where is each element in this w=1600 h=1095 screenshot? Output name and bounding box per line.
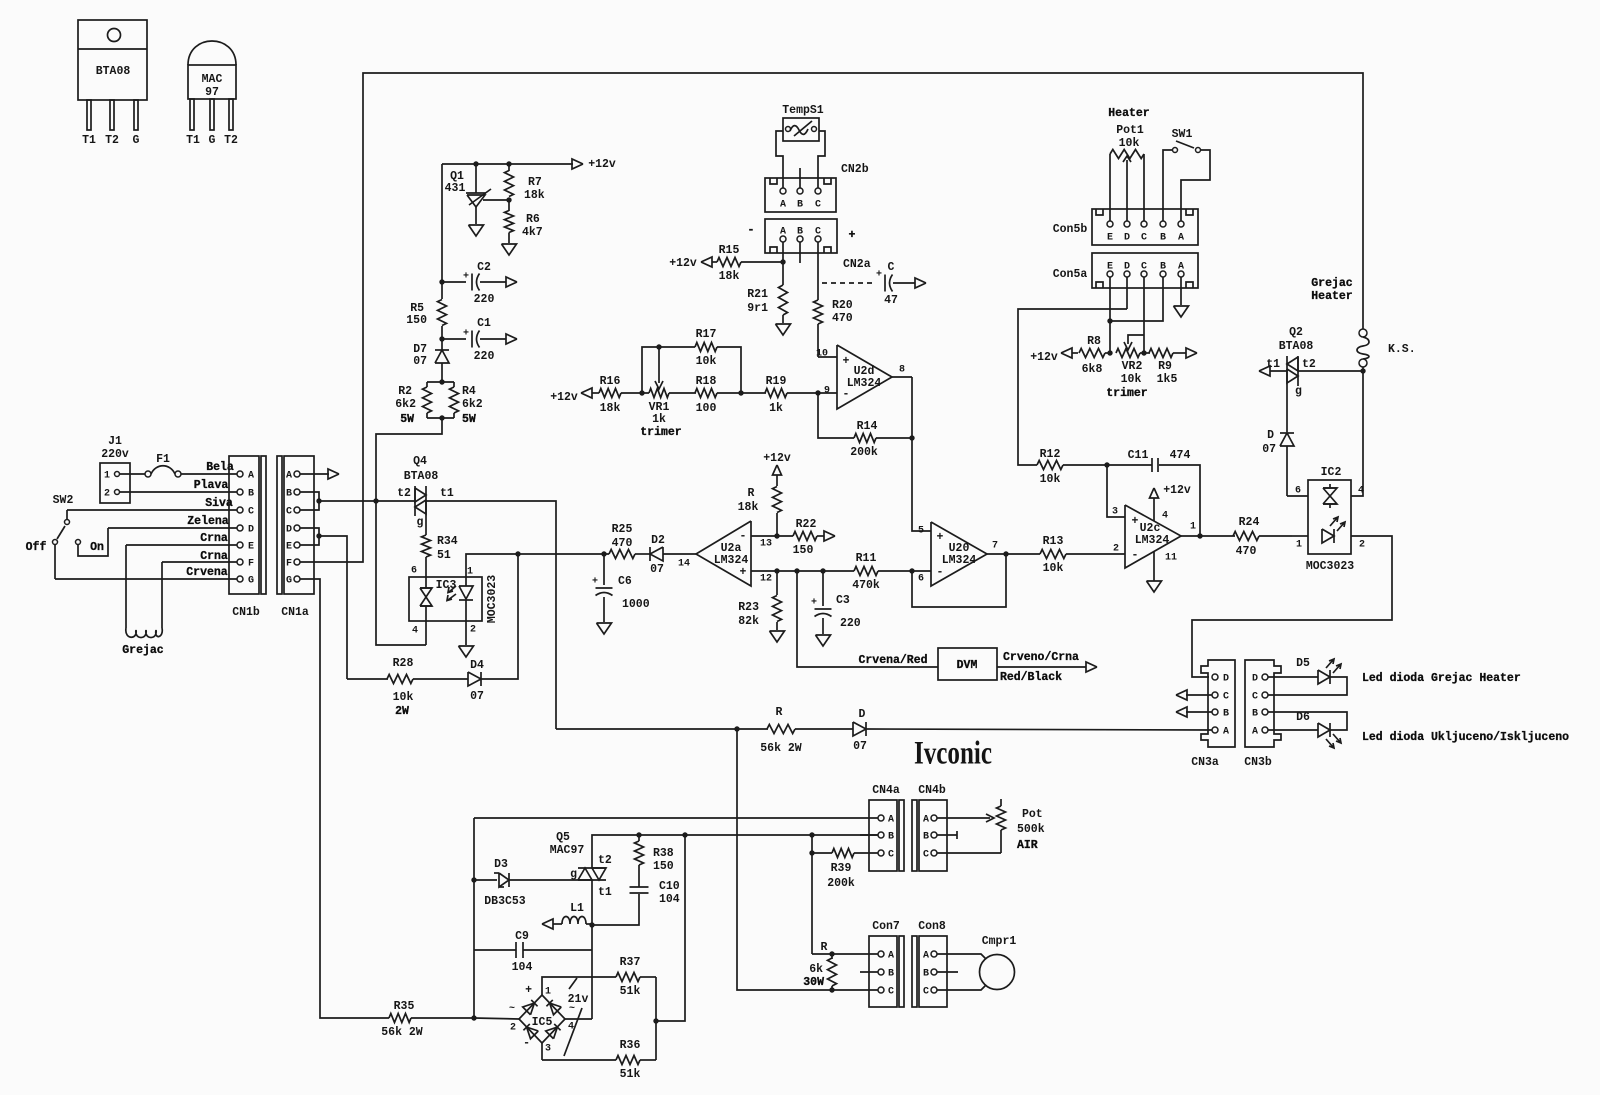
svg-text:14: 14 [678,559,690,570]
svg-text:A: A [1178,262,1184,273]
svg-text:Led dioda Ukljuceno/Iskljuceno: Led dioda Ukljuceno/Iskljuceno [1362,731,1569,744]
svg-text:Red/Black: Red/Black [1000,671,1062,684]
wire pot bottom to CN4b C [937,852,1001,854]
svg-text:On: On [90,541,104,554]
wire IC5 pin3 riser [541,1043,543,1060]
svg-text:474: 474 [1170,449,1191,462]
svg-text:47: 47 [884,294,898,307]
resistor R14 200k feedback [818,393,854,438]
svg-text:-: - [937,566,944,579]
wire IC2 pin4 to heater junction [1351,371,1363,496]
svg-text:BTA08: BTA08 [1279,340,1314,353]
svg-text:R: R [748,487,755,500]
connector CN1a [277,456,282,594]
svg-text:CN3a: CN3a [1191,756,1219,769]
wire D to CN3a A [866,729,1212,730]
svg-text:+12v: +12v [1030,351,1058,364]
wire CN2a C down [817,242,819,300]
bridge rectifier IC5 [519,995,565,1043]
svg-text:+: + [843,355,850,368]
wire IC5 pin1 to R37 [542,977,616,995]
svg-text:LM324: LM324 [1135,534,1170,547]
svg-text:-: - [1132,549,1139,562]
svg-text:A: A [1223,727,1229,738]
svg-text:B: B [248,489,254,500]
svg-text:10k: 10k [1040,473,1061,486]
svg-text:+: + [463,329,469,340]
svg-text:A: A [888,815,894,826]
arrow +12v top [572,159,583,169]
IC3 led emission arrows [447,594,456,601]
svg-text:R13: R13 [1043,535,1064,548]
svg-text:R8: R8 [1087,335,1101,348]
wire Crvena to CN1b G [55,578,237,580]
svg-text:220: 220 [474,350,495,363]
svg-text:Pot1: Pot1 [1116,124,1144,137]
svg-text:82k: 82k [738,615,759,628]
svg-text:1k5: 1k5 [1157,373,1178,386]
BTA08 leg T1 [87,100,91,130]
svg-text:R: R [776,706,783,719]
svg-text:K.S.: K.S. [1388,343,1416,356]
stub Con8 B [937,971,958,973]
svg-text:CN3b: CN3b [1244,756,1272,769]
wire Con5a E/B junction [1109,277,1111,353]
svg-text:+12v: +12v [550,391,578,404]
svg-text:C: C [248,507,254,518]
resistor R37 51k [616,973,640,982]
svg-text:4: 4 [1358,486,1364,497]
svg-text:12: 12 [760,574,772,585]
svg-text:T2: T2 [105,134,119,147]
resistor R38 150 [638,835,640,841]
wire Con5a D to R12 drop [1126,277,1128,309]
connector Con7 [869,936,897,1007]
wire Q5 t2 riser [592,835,878,868]
svg-text:Plava: Plava [194,479,229,492]
capacitor C6 1000 [603,554,605,585]
wire Plava to CN1b B [120,491,237,493]
svg-text:+: + [937,531,944,544]
svg-text:7: 7 [992,541,998,552]
connector CN3b [1245,660,1281,747]
svg-text:104: 104 [659,893,680,906]
svg-text:B: B [1160,233,1166,244]
capacitor C2 220 [439,279,444,284]
op-amp U2c LM324 [1125,505,1181,568]
wire L1 junction to C10 [592,894,639,925]
svg-text:MOC3023: MOC3023 [1306,560,1354,573]
svg-text:+: + [811,598,817,609]
stub Con7 B [860,971,878,973]
resistor R16 18k [599,389,621,398]
svg-text:D: D [1267,429,1274,442]
svg-text:R36: R36 [620,1039,641,1052]
svg-text:t2: t2 [1302,358,1316,371]
svg-text:10k: 10k [696,355,717,368]
diode D 07 line [853,722,866,736]
svg-text:Con5a: Con5a [1053,268,1088,281]
wire U2d pin9 [818,392,837,394]
wire regulator left drop [441,164,443,282]
svg-text:T1: T1 [82,134,96,147]
svg-text:Con7: Con7 [872,920,900,933]
op-amp U20 LM324 [931,522,987,586]
svg-text:R38: R38 [653,847,674,860]
resistor R28 10k 2W [347,678,388,680]
wire R12 up to Con5a D [1018,309,1127,465]
svg-text:9r1: 9r1 [747,302,768,315]
capacitor C1 220 [439,336,444,341]
svg-text:11: 11 [1165,553,1177,564]
svg-text:F: F [286,559,292,570]
svg-text:B: B [923,969,929,980]
trimmer VR2 10k [1116,349,1140,358]
MAC97 leg T2 [229,99,233,130]
transistor package MAC97 outline [188,41,236,65]
connector CN2b [765,178,836,212]
svg-text:IC2: IC2 [1321,466,1342,479]
svg-text:+12v: +12v [669,257,697,270]
svg-text:B: B [286,489,292,500]
resistor R39 200k [832,849,854,858]
wire mains live from CN1a pin F up and across top to heater [300,73,1363,562]
svg-text:Crveno/Crna: Crveno/Crna [1003,651,1079,664]
capacitor C9 104 [474,949,516,951]
svg-text:3: 3 [1112,507,1118,518]
svg-text:+12v: +12v [588,158,616,171]
svg-text:Led dioda Grejac Heater: Led dioda Grejac Heater [1362,672,1521,685]
svg-text:t2: t2 [598,854,612,867]
svg-text:C: C [1141,262,1147,273]
svg-text:E: E [248,542,254,553]
svg-text:Grejac: Grejac [122,644,164,657]
capacitor C10 104 [630,886,649,888]
svg-text:Pot: Pot [1022,808,1043,821]
svg-text:R35: R35 [394,1000,415,1013]
wire Zelena to CN1b D [108,527,237,529]
svg-text:+: + [592,577,598,588]
resistor R 56k 2W line [556,728,768,730]
svg-text:18k: 18k [600,402,621,415]
svg-text:1: 1 [467,567,473,578]
svg-text:BTA08: BTA08 [404,470,439,483]
optocoupler IC2 MOC3023 [1308,480,1351,554]
connector CN4b [912,800,917,871]
svg-text:2: 2 [1113,544,1119,555]
svg-text:1k: 1k [652,413,666,426]
wire lower rail to Con7 C [737,729,878,990]
svg-text:CN1b: CN1b [232,606,260,619]
resistor R4 6k2 5W [450,387,459,413]
svg-text:4: 4 [1162,511,1168,522]
svg-text:LM324: LM324 [942,554,977,567]
resistor R8 6k8 [1079,349,1105,358]
svg-text:G: G [286,576,292,587]
wire Con8 C to compressor [937,985,986,990]
resistor R2 6k2 5W [439,379,444,384]
svg-text:D: D [248,525,254,536]
arrow Q2 t1 [1259,366,1270,376]
svg-text:6: 6 [411,566,417,577]
wire Q2 t2 to heater junction [1298,370,1363,372]
resistor R17 10k loop [642,347,695,393]
wire top rail bottom block [474,817,878,819]
wire IC2 pin6 to D [1287,495,1308,497]
svg-text:T2: T2 [224,134,238,147]
svg-text:21v: 21v [568,993,589,1006]
svg-text:4k7: 4k7 [522,226,543,239]
wire node D/E to R28 [319,536,347,679]
resistor R5 150 [441,282,443,299]
svg-text:+: + [849,229,856,242]
svg-text:R37: R37 [620,956,641,969]
svg-text:D2: D2 [651,534,665,547]
svg-text:R17: R17 [696,328,717,341]
svg-text:51k: 51k [620,985,641,998]
BTA08 leg T2 [110,100,114,130]
svg-text:18k: 18k [738,501,759,514]
svg-text:~: ~ [509,1004,515,1015]
svg-text:B: B [1160,262,1166,273]
wire D5 return to CN3b C [1268,677,1347,695]
meter DVM box [938,648,997,680]
svg-text:R4: R4 [462,385,476,398]
VR1 wiper arrow [658,347,660,383]
svg-text:R20: R20 [832,299,853,312]
svg-text:07: 07 [413,355,427,368]
ground C3 [816,635,831,646]
svg-text:R14: R14 [857,420,878,433]
svg-text:C3: C3 [836,594,850,607]
op-amp U2d LM324 [837,345,892,409]
U2c pin11 ground [1153,552,1155,581]
transistor package BTA08 outline [78,20,147,100]
svg-text:T1: T1 [186,134,200,147]
svg-text:R7: R7 [528,176,542,189]
wire riser to Con7 A [812,953,878,955]
wire SW2 Off to Crvena wire [54,545,56,579]
svg-text:R25: R25 [612,523,633,536]
svg-text:C1: C1 [477,317,491,330]
svg-text:R: R [821,941,828,954]
svg-text:R28: R28 [393,657,414,670]
svg-text:D: D [286,525,292,536]
TempS1 socket legs [776,131,783,188]
svg-text:D: D [1252,674,1258,685]
wire Con8 A to compressor [937,954,986,959]
resistor R19 1k [741,392,766,394]
svg-text:C9: C9 [515,930,529,943]
resistor R20 470 [814,300,823,324]
svg-text:5W: 5W [462,413,476,426]
svg-text:D5: D5 [1296,657,1310,670]
wire U2c pin3 [1107,465,1125,517]
svg-text:+12v: +12v [763,452,791,465]
ground R6 [502,244,517,255]
ground C6 [597,623,612,634]
svg-text:Crvena: Crvena [186,566,228,579]
svg-text:6: 6 [918,574,924,585]
svg-text:D4: D4 [470,659,484,672]
svg-text:431: 431 [445,182,466,195]
svg-text:C: C [1141,233,1147,244]
svg-text:D: D [1124,262,1130,273]
svg-text:B: B [797,200,803,211]
wire SW2 On to Zelena wire [78,528,108,556]
diac D3 DB3C53 [474,879,497,881]
svg-text:R21: R21 [747,288,768,301]
heater element K.S. [1359,329,1367,337]
compressor Cmpr1 [980,955,1015,990]
wire R37/R36 right leg [655,977,657,1060]
svg-text:Crna: Crna [200,532,228,545]
svg-text:g: g [570,868,577,881]
stub CN4a B [860,834,878,836]
svg-text:t1: t1 [598,886,612,899]
svg-text:07: 07 [853,740,867,753]
svg-text:200k: 200k [850,446,878,459]
connector CN4a [869,800,897,871]
svg-text:MAC97: MAC97 [550,844,585,857]
svg-text:R9: R9 [1158,360,1172,373]
stub CN4b B [937,834,957,836]
potentiometer Pot 500k AIR [937,817,990,819]
wire D2 to U2a output [663,553,696,555]
svg-text:Cmpr1: Cmpr1 [982,935,1017,948]
MAC97 leg T1 [190,99,194,130]
resistor R7 18k [506,161,511,166]
svg-text:C10: C10 [659,880,680,893]
wire B/C junction riser CN4a [811,835,813,954]
svg-text:Zelena: Zelena [187,515,229,528]
svg-text:+12v: +12v [1163,484,1191,497]
svg-text:LM324: LM324 [847,377,882,390]
svg-text:R23: R23 [738,601,759,614]
svg-text:07: 07 [470,690,484,703]
svg-text:-: - [748,224,755,237]
wire U20 pin6 [912,570,931,572]
svg-text:IC3: IC3 [436,579,457,592]
wire U20 output 7 [987,553,1040,555]
svg-text:-: - [523,1037,530,1050]
U2c power pin4 +12v [1153,498,1155,521]
svg-text:1: 1 [104,471,110,482]
svg-text:Off: Off [26,541,47,554]
led D5 [1268,676,1318,678]
connector J1 220v [100,463,130,503]
svg-text:F1: F1 [156,453,170,466]
arrow VR2 line out [1186,348,1197,358]
svg-text:Con8: Con8 [918,920,946,933]
ground Q1 [469,225,484,236]
svg-text:C: C [923,850,929,861]
resistor R13 10k [1040,550,1066,559]
svg-text:B: B [797,227,803,238]
svg-text:2: 2 [1359,540,1365,551]
svg-text:G: G [209,134,216,147]
svg-text:A: A [780,200,786,211]
svg-text:8: 8 [899,365,905,376]
resistor R23 82k [773,596,782,622]
diode D4 07 [468,672,481,686]
svg-text:CN4b: CN4b [918,784,946,797]
arrow CN3a C [1186,694,1212,696]
svg-text:L1: L1 [570,902,584,915]
diode D2 07 [650,547,663,561]
svg-text:B: B [1252,709,1258,720]
svg-text:A: A [923,815,929,826]
svg-text:Heater: Heater [1311,290,1353,303]
arrow +12v R8 [1061,348,1072,358]
svg-text:R16: R16 [600,375,621,388]
svg-text:+: + [525,984,532,997]
ground R21 [776,324,791,335]
svg-text:C: C [815,200,821,211]
wire +12v rail from regulator [442,163,573,165]
svg-text:C2: C2 [477,261,491,274]
svg-text:D6: D6 [1296,711,1310,724]
wire SW1 right to Con5b A [1181,150,1210,221]
svg-text:C: C [888,850,894,861]
dashed wire to capacitor C 47 [822,282,874,284]
svg-text:1000: 1000 [622,598,650,611]
wire Q5 t1 down [591,880,593,1019]
svg-text:56k 2W: 56k 2W [381,1026,423,1039]
svg-text:470k: 470k [852,579,880,592]
diode D 07 gate Q2 [1286,394,1288,432]
svg-text:R24: R24 [1239,516,1260,529]
ground Con5a A [1180,277,1182,305]
wire junction to t2 rail riser [656,835,685,1021]
wire U2a pin12 [751,570,854,572]
svg-text:MOC3023: MOC3023 [486,575,499,623]
svg-text:R34: R34 [437,535,458,548]
svg-text:R12: R12 [1040,448,1061,461]
svg-text:1k: 1k [769,402,783,415]
svg-text:500k: 500k [1017,823,1045,836]
svg-text:51: 51 [437,549,451,562]
svg-text:R15: R15 [719,244,740,257]
resistor R34 51 [425,530,427,535]
fuse F1 [120,473,145,475]
capacitor C11 474 feedback [1159,465,1200,536]
svg-text:J1: J1 [108,435,122,448]
svg-text:F: F [248,559,254,570]
svg-text:10k: 10k [393,691,414,704]
svg-text:t1: t1 [440,487,454,500]
connector CN2a [765,219,837,253]
wire Pot1 left lead to Con5b E [1109,154,1111,221]
svg-text:150: 150 [793,544,814,557]
resistor R35 56k 2W [389,1014,411,1023]
svg-text:56k 2W: 56k 2W [760,742,802,755]
svg-text:C: C [923,987,929,998]
svg-text:E: E [1107,233,1113,244]
svg-text:470: 470 [612,537,633,550]
wire CN1a B C junction [300,492,319,510]
svg-text:R11: R11 [856,552,877,565]
arrow CN3a B [1186,711,1212,713]
svg-text:2: 2 [104,489,110,500]
svg-text:B: B [923,832,929,843]
svg-text:CN4a: CN4a [872,784,900,797]
svg-text:1: 1 [1296,540,1302,551]
svg-text:D: D [1124,233,1130,244]
svg-text:150: 150 [653,860,674,873]
svg-text:Q4: Q4 [413,455,427,468]
svg-text:MAC: MAC [202,73,223,86]
